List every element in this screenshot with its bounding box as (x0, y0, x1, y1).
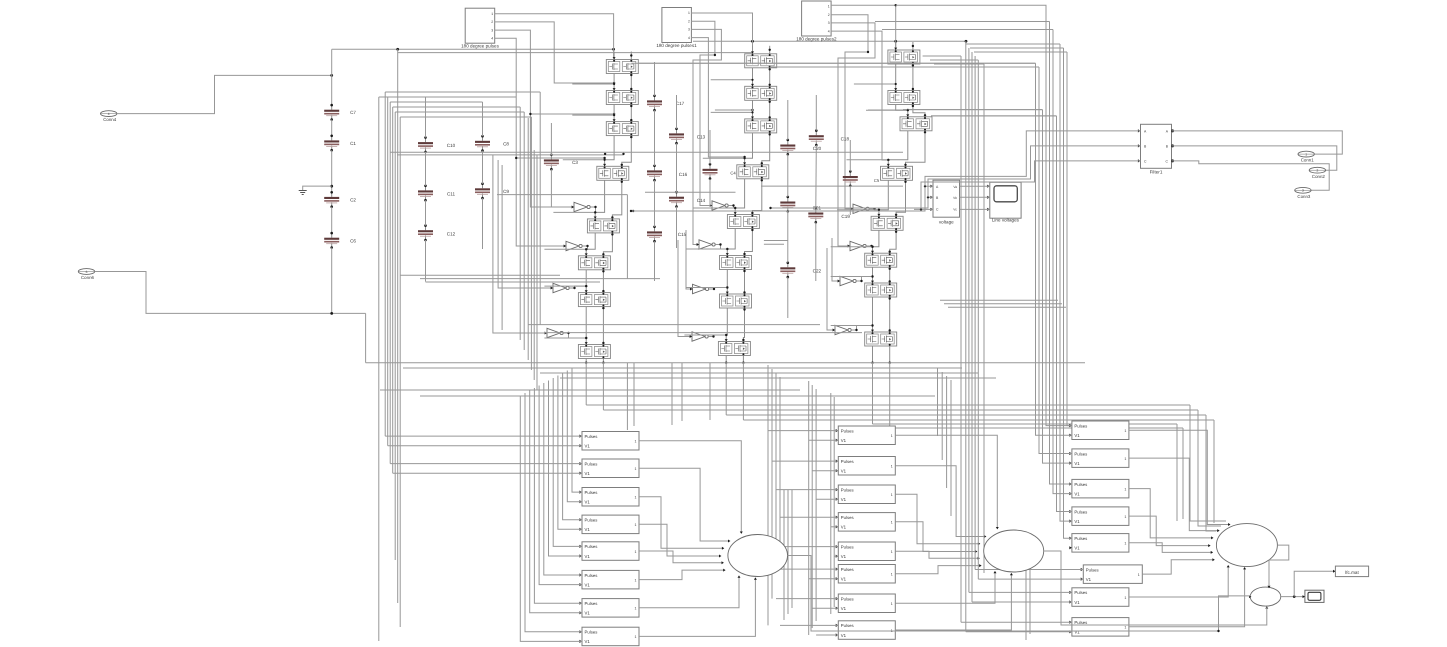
switch Q1-5 (IGBT pair leg1) (587, 219, 619, 233)
svg-text:Pulses: Pulses (1074, 536, 1087, 541)
wire cross horizontal 14 (403, 367, 962, 369)
wire pg2-8 input1 (780, 624, 838, 626)
wire b5 top hook1 (923, 55, 961, 57)
wire pg3-4 output (1129, 516, 1210, 546)
wire leg3 rail 3 (887, 131, 926, 167)
capacitor Cc (780, 261, 795, 278)
subsystem 180 degree pulses1 (656, 8, 697, 48)
capacitor C16 (647, 165, 688, 182)
wire leg1 NOT3 feed (498, 160, 553, 288)
wire bundle-b4 line 7 (791, 490, 793, 608)
wire P3 out2 (831, 15, 868, 209)
wire bundle-left line 5 (392, 107, 394, 473)
svg-text:V1: V1 (585, 611, 591, 616)
wire cap col C17 top (654, 62, 656, 96)
capacitor C12 (418, 224, 456, 241)
capacitor C1 (324, 135, 356, 152)
junction NOT leg2-2 out (719, 243, 728, 250)
wire leg3 bottom to negative bus (871, 346, 891, 364)
svg-text:C22: C22 (813, 269, 822, 274)
wire loop top hook 8 (970, 47, 1064, 49)
wire c17-16 (654, 110, 656, 166)
junction P1 out3 branch (529, 113, 615, 115)
wire cross horizontal 15 (540, 372, 978, 374)
wire pg1-4 input1 (563, 373, 582, 520)
wire bundle-mid line 4 (527, 118, 529, 360)
junction gate feed leg1-5 (594, 211, 596, 213)
junction double bus (604, 153, 625, 155)
svg-text:1: 1 (635, 578, 637, 582)
capacitor C9 (475, 182, 509, 199)
wire NOT leg1-4 output to gate (563, 333, 586, 338)
svg-text:1: 1 (1124, 487, 1126, 491)
svg-text:Pulses: Pulses (585, 518, 598, 523)
svg-text:1: 1 (891, 465, 893, 469)
wire pg1-5 input2 (549, 381, 583, 557)
block pulse generator g2-4 (836, 513, 896, 532)
wire b1 hook1 (379, 96, 426, 98)
svg-text:C14: C14 (697, 198, 706, 203)
wire leg2 top link (778, 66, 1039, 68)
wire leg1 rail 6 (585, 270, 605, 293)
mux M4 (output collector) (1249, 587, 1281, 609)
svg-text:V1: V1 (1074, 546, 1080, 551)
wire cap col C8 top (482, 102, 484, 136)
wire pg1-6 output (639, 570, 725, 580)
arrow pg2-5 into mux (978, 557, 980, 560)
junction NOT leg3-3 out (860, 275, 873, 282)
block Scope small (1303, 590, 1325, 602)
svg-text:3: 3 (1302, 189, 1304, 193)
svg-text:C6: C6 (350, 238, 356, 243)
wire leg1 rail 3 (603, 136, 632, 167)
svg-text:C18: C18 (841, 137, 850, 142)
wire NOT leg1-2 output to gate (582, 246, 587, 249)
junction gate feed leg2-2 (751, 79, 753, 81)
svg-text:V1: V1 (1074, 461, 1080, 466)
wire gate feed leg3-3 (866, 109, 908, 111)
block To File lfc.mat (1335, 566, 1368, 577)
wire cross horizontal 11 (528, 324, 820, 326)
wire gate feed leg1-8 (544, 337, 586, 339)
wire pg1-1 output (639, 441, 741, 533)
wire b5 bottom hook 1 (961, 621, 1072, 623)
svg-text:1: 1 (891, 493, 893, 497)
wire gate feed leg3-8 (831, 325, 873, 327)
arrow pg1-1 into mux (740, 532, 743, 534)
wire cross horizontal 3 (761, 185, 903, 187)
svg-text:C12: C12 (447, 231, 456, 236)
label C4 small (730, 171, 736, 176)
svg-text:V1: V1 (585, 639, 591, 644)
wire NOT leg3-1 output to gate (869, 209, 879, 210)
wire NOT leg3-2 output to gate (866, 245, 872, 248)
wire leg2 rail 2 (751, 100, 771, 119)
wire leg2 rail drop b (742, 363, 744, 420)
svg-text:Vc: Vc (953, 208, 957, 212)
wire phase A to voltage A (631, 186, 933, 211)
junction Q2-4 gate (743, 156, 745, 158)
wire loop top hook 7 (966, 43, 1060, 45)
wire phase A up to filter (925, 131, 1141, 186)
arrow mux4 top-in (1268, 586, 1271, 588)
svg-text:C9: C9 (503, 189, 509, 194)
wire leg3 NOT3 feed (832, 238, 840, 281)
capacitor Ca (780, 139, 795, 156)
junction gate feed leg3-6 (871, 246, 873, 248)
arrow pg3-5 into mux (1211, 551, 1213, 554)
wire NOT leg1-1 output to gate (590, 207, 595, 212)
wire leg2 rail drop a (725, 363, 727, 415)
wire cross horizontal 13 (366, 362, 1085, 364)
wire bundle-mid line 2 (519, 107, 521, 340)
wire bundle-right line 3 (968, 48, 970, 592)
wire leg1 rail 7 (585, 307, 605, 345)
wire pg1-2 input1 (390, 463, 582, 465)
wire c16-15 (654, 180, 656, 227)
wire leg2 cap link2 (764, 243, 784, 245)
wire leg1 NOT4 feed (493, 155, 547, 333)
junction gate feed leg1-2 (613, 83, 615, 85)
wire band vertical t4 (681, 363, 683, 421)
svg-text:V1: V1 (585, 554, 591, 559)
wire loop line 5 (1053, 30, 1072, 494)
svg-text:Conn4: Conn4 (103, 117, 116, 122)
wire voltage Va to scope (960, 185, 990, 187)
wire cross horizontal 17 (380, 389, 800, 391)
wire pg1-3 input1 (572, 368, 582, 492)
arrow pg3-7 into mux (1227, 565, 1230, 567)
svg-text:1: 1 (1124, 457, 1126, 461)
wire b1 hook5 (393, 106, 521, 108)
svg-text:1: 1 (1305, 152, 1307, 156)
wire P2 out2 branch to Q2-3 gate (715, 109, 753, 111)
wire string bottom to negative bus (365, 313, 367, 362)
wire band-to-mux3 v6 (1182, 428, 1184, 519)
wire pg2-6 output (895, 566, 980, 574)
svg-text:Pulses: Pulses (1074, 620, 1087, 625)
wire leg2 rail 4 (734, 179, 763, 215)
svg-text:V1: V1 (841, 497, 847, 502)
junction phase tap (632, 210, 634, 212)
wire bundle-right line 6 (977, 60, 979, 579)
junction phase B (769, 196, 929, 209)
arrow pg2-7 into mux (994, 571, 997, 573)
wire band-to-mux3 v4 (1213, 420, 1215, 523)
subsystem 180 degree pulses (461, 8, 500, 48)
wire ground stub (303, 186, 332, 190)
logic NOT gate leg1-3 (551, 283, 570, 292)
wire c4 down (709, 179, 711, 207)
wire gate feed leg1-4 (563, 159, 605, 161)
wire P2 out4 to Q2-4 gate (691, 38, 745, 157)
wire loop top hook 9 (974, 51, 1067, 53)
junction P3 branch (867, 51, 909, 111)
wire loop line 8 (1064, 48, 1072, 538)
wire pg3-5 output (1129, 543, 1212, 553)
wire band vertical t2 (633, 363, 635, 426)
wire cross horizontal 9 (944, 303, 1062, 305)
block Filter1 (1138, 124, 1174, 174)
switch Q2-3 (IGBT pair leg2) (745, 119, 777, 133)
junction gate feed leg1-8 (585, 337, 587, 339)
block voltage measurement (930, 180, 959, 224)
wire DC positive bus (332, 48, 614, 50)
arrow pg1-3 into mux (722, 547, 724, 550)
capacitor C11 (418, 185, 455, 202)
wire P1 out4 (495, 38, 566, 246)
switch Q1-3 (IGBT pair leg1) (606, 122, 638, 136)
svg-text:voltage: voltage (939, 219, 954, 224)
wire loop top hook 3 (903, 109, 1043, 111)
logic NOT gate leg2-3 (690, 284, 709, 293)
wire leg3 rail 4 (877, 180, 906, 216)
arrow pg3-1 into mux (1228, 523, 1230, 526)
wire pg2-2 output (895, 466, 985, 537)
wire mux4 left feed (1219, 596, 1251, 631)
wire b5 bottom hook 5 (975, 569, 1083, 571)
svg-text:V1: V1 (1074, 491, 1080, 496)
wire C6 down to Conn6 node (331, 248, 333, 314)
wire loop line 7 (1060, 44, 1072, 521)
svg-text:Vb: Vb (953, 196, 957, 200)
wire leg2 rail 6 (726, 270, 746, 295)
wire bundle-b4 line 1 (767, 365, 769, 625)
capacitor C8 (475, 135, 509, 152)
wire pg1-5 input1 (553, 378, 582, 546)
wire Conn6 to string bottom (95, 272, 366, 314)
wire bundle-left line 3 (387, 97, 389, 446)
wire C3 col (550, 123, 552, 155)
wire leg3 rail 2 (896, 105, 927, 117)
mux M2 (gate signals phase B) (984, 530, 1044, 572)
logic NOT gate leg3-1 (851, 204, 870, 213)
arrow pg1-4 into mux (719, 555, 721, 558)
wire bundle-right line 7 (983, 64, 985, 573)
switch Q1-2 (IGBT pair leg1) (606, 91, 638, 105)
wire bundle-left line 4 (389, 102, 391, 464)
svg-text:V1: V1 (841, 438, 847, 443)
wire gate feed leg3-2 (854, 83, 896, 85)
label C22 (813, 269, 822, 274)
svg-text:180 degree pulses: 180 degree pulses (461, 44, 500, 49)
wire leg2 rail 1 (751, 68, 771, 87)
svg-text:C4: C4 (730, 171, 736, 176)
junction bus leg2 (751, 40, 754, 43)
wire pg3-7 output (1129, 566, 1228, 597)
wire cap col C10 top (425, 97, 427, 138)
wire leg2 bottom to negative bus (725, 356, 745, 364)
wire cap C18 col (849, 140, 851, 171)
wire band vertical t5 (709, 363, 711, 420)
wire pg1-1 input1 (385, 435, 582, 437)
wire filter C out (1172, 161, 1330, 190)
wire P3 out1 loop (896, 5, 1072, 425)
wire mux1 output (788, 556, 1219, 632)
wire cross horizontal 24 (890, 427, 1183, 429)
svg-text:C11: C11 (447, 192, 456, 197)
arrow pg3-4 into mux (1208, 544, 1210, 547)
wire leg1 rail 2 (613, 105, 633, 122)
logic NOT gate leg1-4 (545, 328, 564, 337)
svg-text:Pulses: Pulses (841, 567, 854, 572)
wire pg2-3 input1 (776, 489, 838, 491)
switch Q1-7 (IGBT pair leg1) (578, 293, 610, 307)
block pulse generator g3-7 (1069, 588, 1129, 607)
wire c18 down (849, 186, 851, 215)
block pulse generator g2-5 (836, 542, 896, 561)
wire bundle-left line 1 (378, 97, 380, 641)
wire mux3 output (1269, 545, 1289, 585)
wire pg1-3 output (639, 497, 723, 549)
wire bundle-b4 line 12 (833, 397, 835, 607)
wire pg3-2 output (1129, 458, 1219, 530)
wire below-mux2 v1 (1025, 556, 1027, 640)
wire leg3 rail drop b (889, 363, 891, 428)
wire leg2 loop line (645, 191, 736, 193)
wire P1 out3 branch to Q1-3 gate (530, 113, 614, 115)
wire band vertical t1 (626, 363, 628, 430)
wire c9 down (482, 198, 484, 249)
wire bundle-left line 2 (384, 92, 386, 436)
wire Conn4 to DC bus (117, 75, 332, 113)
wire loop box vertical (626, 195, 628, 279)
junction gate feed leg3-3 (907, 109, 909, 111)
wire pg2-1 output (895, 435, 997, 528)
wire cross horizontal 20 (603, 409, 1198, 411)
svg-text:1: 1 (1124, 542, 1126, 546)
arrow pg2-4 into mux (975, 550, 977, 553)
wire pg1-8 output (639, 578, 755, 636)
wire pg1-7 input2 (530, 391, 582, 613)
svg-text:4: 4 (688, 36, 690, 40)
wire b1 hook6 (395, 111, 524, 113)
wire pg1-3 input2 (567, 371, 582, 502)
wire pg2-3 output (895, 494, 979, 544)
svg-text:Pulses: Pulses (841, 515, 854, 520)
wire c11-12 (425, 200, 427, 225)
capacitor C13 (669, 128, 706, 145)
junction P1 out4 branch (515, 157, 606, 159)
wire leg3 top link2 (931, 115, 1057, 117)
wire bundle-left line 6 (394, 112, 396, 560)
wire pg1-4 input2 (558, 376, 582, 530)
wire C1-C2 (331, 150, 333, 192)
capacitor C3 (544, 154, 578, 171)
wire pg2-5 input2 (834, 555, 838, 557)
wire gate feed leg1-5 (553, 211, 595, 213)
junction NOT leg1-2 out (585, 245, 589, 251)
block pulse generator g3-3 (1069, 479, 1129, 498)
junction NOT leg3-4 out (855, 324, 873, 331)
wire loop line 1 (1036, 63, 1072, 435)
wire pg1-2 input2 (393, 472, 582, 474)
wire gate feed leg2-4 (703, 157, 745, 159)
svg-text:V1: V1 (585, 471, 591, 476)
junction bus left (396, 48, 399, 51)
wire c15 down (654, 241, 656, 281)
wire l3a mid (787, 154, 789, 197)
wire b1 hook4 (390, 101, 482, 103)
svg-text:V1: V1 (1074, 630, 1080, 635)
block pulse generator g2-3 (836, 485, 896, 504)
wire pg1-6 input1 (544, 383, 582, 575)
wire leg3 NOT4 feed (827, 248, 835, 330)
wire band vertical t6 (937, 368, 939, 436)
wire P2 out2 (691, 21, 715, 205)
wire cap col C20 top (815, 95, 817, 131)
wire leg1 rail 4 (594, 180, 623, 219)
ground symbol (299, 191, 307, 195)
junction ground tap (330, 185, 333, 188)
svg-text:Pulses: Pulses (1074, 451, 1087, 456)
wire gate feed leg2-7 (686, 287, 728, 289)
svg-text:C1: C1 (350, 141, 356, 146)
capacitor C6 (324, 232, 356, 249)
switch Q2-8 (IGBT pair leg2) (718, 342, 750, 356)
block pulse generator g3-5 (1069, 534, 1129, 553)
wire gate feed leg1-3 (572, 114, 614, 116)
wire pg1-5 output (639, 551, 723, 563)
wire phase C up to filter (921, 161, 1141, 210)
wire pg2-8 output (895, 574, 1011, 630)
svg-text:C15: C15 (678, 232, 687, 237)
arrow into ToFile (1333, 570, 1335, 573)
switch Q3-4 (IGBT pair leg3) (881, 166, 913, 180)
junction phase C (920, 208, 922, 210)
junction Conn4 bus (330, 74, 333, 77)
wire bundle-right line 5 (974, 56, 976, 570)
switch Q2-6 (IGBT pair leg2) (720, 256, 752, 270)
wire loop line 9 (1067, 52, 1072, 426)
mux M1 (gate signals phase A) (728, 535, 788, 577)
wire gate feed leg3-7 (831, 276, 873, 278)
svg-text:Pulses: Pulses (841, 459, 854, 464)
svg-text:C10: C10 (447, 143, 456, 148)
wire gate feed leg3-5 (837, 209, 879, 211)
wire cross horizontal 12 (544, 332, 862, 334)
svg-text:Line voltages: Line voltages (992, 218, 1020, 223)
input port Conn4 (101, 111, 117, 123)
wire leg1 rail 1 (613, 74, 633, 91)
svg-text:V1: V1 (841, 606, 847, 611)
wire band vertical t3 (671, 363, 673, 425)
wire pg2-4 output (895, 522, 976, 552)
block pulse generator g2-2 (836, 457, 896, 476)
wire bundle-b4 line 2 (771, 369, 773, 599)
wire cross horizontal 22 (743, 419, 1214, 421)
wire pg2-8 input2 (816, 634, 838, 636)
logic NOT gate leg2-2 (697, 240, 716, 249)
wire band-to-mux3 v2 (1198, 410, 1221, 526)
capacitor C21 (808, 207, 823, 224)
wire P2 out1 to Q2-1 gate (691, 13, 752, 53)
block pulse generator g1-3 (579, 488, 639, 507)
output port Conn2 (1309, 167, 1325, 179)
wire bundle-mid line 7 (536, 155, 538, 390)
svg-text:V1: V1 (585, 582, 591, 587)
wire cross horizontal 18 (420, 395, 935, 397)
svg-text:V1: V1 (1074, 519, 1080, 524)
svg-text:1: 1 (1124, 626, 1126, 630)
wire bundle-left line 7 (397, 49, 399, 603)
svg-text:1: 1 (828, 5, 830, 9)
wire band vertical t8 (946, 376, 948, 488)
wire bundle-b4 line 9 (811, 385, 813, 628)
junction NOT leg3-1 out (873, 208, 880, 211)
switch Q1-6 (IGBT pair leg1) (578, 256, 610, 270)
wire NOT leg3-3 output to gate (856, 277, 872, 282)
